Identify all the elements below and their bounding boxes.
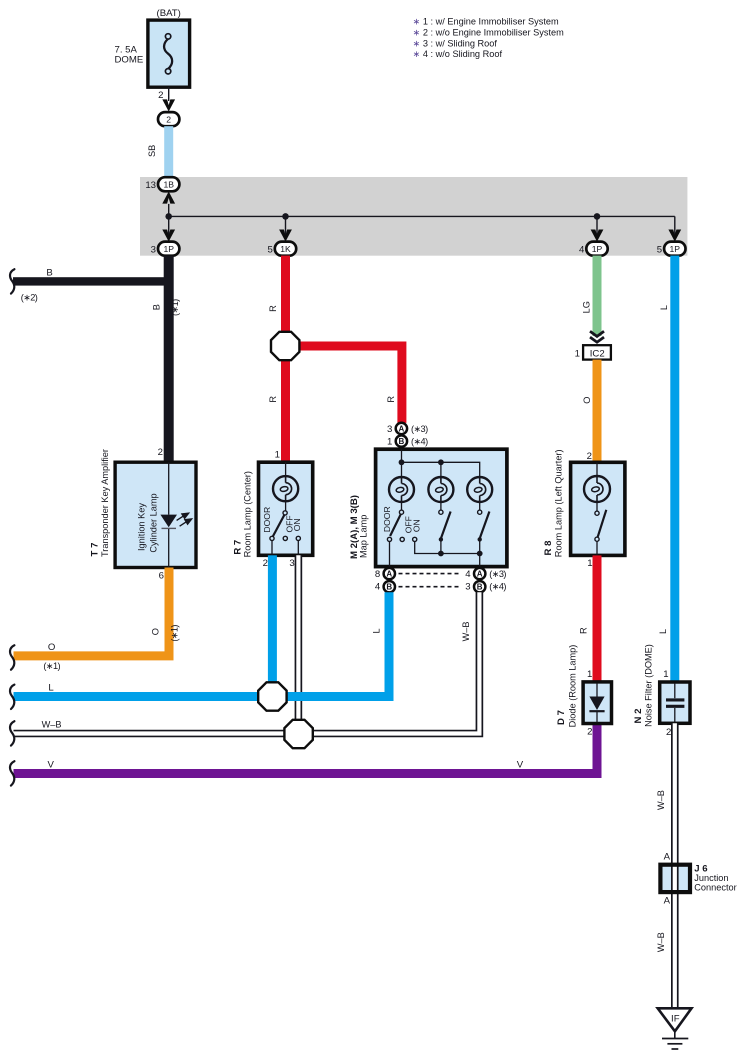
svg-text:4: 4	[579, 244, 585, 255]
map lamp switch 3	[478, 510, 482, 514]
svg-text:13: 13	[145, 180, 156, 191]
svg-text:LG: LG	[582, 301, 592, 313]
svg-text:W–B: W–B	[42, 720, 62, 730]
svg-text:A: A	[664, 896, 671, 907]
wire R red from 1K down	[281, 256, 290, 346]
wire W-B from N2 to ground	[671, 723, 679, 1008]
connector oval 1B pin 13	[158, 177, 179, 191]
map lamp DOOR switch	[399, 510, 403, 514]
wire R red octagon branch to map lamp	[286, 346, 402, 423]
map lamp bottom connectors right A/B	[474, 568, 485, 579]
svg-text:B: B	[399, 437, 405, 446]
ground IF	[658, 1008, 692, 1031]
svg-text:1P: 1P	[670, 244, 681, 254]
svg-text:(∗1): (∗1)	[169, 625, 179, 642]
T7 internal lead	[168, 462, 170, 515]
svg-text:DOOR: DOOR	[382, 506, 392, 532]
svg-text:5: 5	[657, 244, 662, 255]
svg-text:DOME: DOME	[115, 54, 144, 65]
svg-text:Noise Filter (DOME): Noise Filter (DOME)	[644, 644, 654, 727]
svg-text:ON: ON	[412, 519, 422, 532]
svg-text:A: A	[477, 570, 483, 579]
svg-text:2: 2	[587, 727, 592, 738]
room lamp left quarter R8 box	[571, 462, 625, 555]
wire B black vertical to T7	[164, 256, 174, 463]
svg-text:(∗2): (∗2)	[21, 293, 38, 303]
svg-text:L: L	[658, 629, 668, 634]
R8 switch	[595, 511, 599, 515]
svg-text:1: 1	[663, 669, 668, 680]
svg-text:T 7: T 7	[89, 543, 100, 557]
svg-text:(∗3): (∗3)	[489, 569, 506, 579]
svg-text:2: 2	[587, 451, 592, 462]
svg-text:L: L	[48, 683, 54, 694]
svg-text:O: O	[150, 628, 160, 635]
arrow into connector 2	[162, 99, 175, 111]
splice octagon (white)	[284, 720, 312, 748]
svg-text:Transponder Key Amplifier: Transponder Key Amplifier	[100, 449, 110, 557]
svg-text:8: 8	[375, 569, 380, 580]
svg-text:4: 4	[375, 582, 381, 593]
continuation brace (V row)	[10, 761, 14, 785]
svg-text:6: 6	[159, 571, 164, 582]
svg-text:3: 3	[465, 582, 470, 593]
svg-text:2: 2	[158, 447, 163, 458]
wire W-B from map lamp B2 down and left row	[14, 592, 480, 733]
junction dots on bus	[165, 213, 172, 220]
continuation brace (B branch)	[10, 269, 14, 293]
svg-text:L: L	[659, 305, 669, 310]
D7 diode symbol	[596, 683, 598, 697]
svg-text:IC2: IC2	[590, 348, 605, 359]
wire L blue from R7 pin 2	[268, 555, 277, 696]
junction block (gray band)	[140, 177, 687, 256]
svg-text:∗ 2 : w/o Engine Immobiliser S: ∗ 2 : w/o Engine Immobiliser System	[413, 28, 565, 38]
svg-text:1P: 1P	[592, 244, 603, 254]
map lamp bulb 3	[467, 477, 492, 502]
svg-text:2: 2	[666, 727, 671, 738]
svg-text:2: 2	[166, 115, 171, 125]
svg-text:1: 1	[575, 348, 580, 359]
map lamp box	[376, 449, 507, 566]
map lamp bottom connectors left A/B	[388, 567, 390, 592]
svg-text:A: A	[664, 851, 671, 862]
svg-text:B: B	[386, 583, 392, 592]
R7 lamp symbol	[285, 462, 287, 476]
svg-text:1P: 1P	[163, 244, 174, 254]
arrows into band-bottom connectors	[162, 230, 175, 242]
wire LG green from 1P pin 4	[593, 256, 602, 336]
svg-text:O: O	[582, 397, 592, 404]
svg-text:Connector: Connector	[694, 883, 736, 893]
svg-text:(∗1): (∗1)	[43, 661, 60, 671]
wire SB (light blue)	[164, 126, 173, 177]
svg-text:(∗4): (∗4)	[411, 437, 428, 447]
R8 lamp symbol	[596, 462, 598, 476]
room lamp center R7 box	[259, 462, 313, 555]
svg-text:W–B: W–B	[656, 790, 666, 810]
svg-text:2: 2	[158, 90, 163, 101]
svg-text:Diode (Room Lamp): Diode (Room Lamp)	[567, 645, 577, 728]
continuation brace (L row)	[10, 685, 14, 709]
fuse element symbol	[164, 39, 172, 69]
svg-text:SB: SB	[147, 145, 157, 157]
svg-text:Junction: Junction	[694, 873, 728, 883]
svg-text:1: 1	[387, 437, 392, 448]
svg-text:R 8: R 8	[543, 540, 554, 556]
svg-text:W–B: W–B	[461, 621, 471, 641]
noise filter N2 box	[660, 682, 690, 723]
svg-text:W–B: W–B	[656, 932, 666, 952]
svg-text:V: V	[517, 760, 524, 771]
svg-text:R: R	[386, 396, 396, 403]
map lamp bulb 2	[440, 462, 442, 477]
svg-text:5: 5	[267, 244, 272, 255]
wire fuse pin 2 lead	[168, 87, 170, 101]
svg-text:R: R	[268, 305, 278, 312]
map lamp internal top bus	[401, 449, 403, 462]
junction connector J6	[662, 867, 688, 890]
arrow up into 1B	[162, 192, 175, 204]
svg-text:L: L	[372, 628, 382, 633]
wire O orange from IC2 to R8	[593, 360, 602, 463]
N2 capacitor symbol	[674, 683, 676, 698]
continuation brace (O row)	[10, 645, 14, 669]
svg-text:R: R	[579, 627, 589, 634]
svg-text:4: 4	[465, 569, 471, 580]
svg-text:A: A	[386, 570, 392, 579]
svg-text:1: 1	[587, 669, 592, 680]
svg-text:1: 1	[587, 558, 592, 569]
svg-text:B: B	[152, 304, 162, 310]
svg-text:R: R	[268, 396, 278, 403]
connector oval 1P pin 3	[158, 242, 179, 256]
diode D7 box	[583, 682, 611, 724]
connector IC2	[583, 345, 611, 359]
shield splice chevrons	[590, 331, 604, 336]
svg-text:∗ 1 : w/ Engine Immobiliser Sy: ∗ 1 : w/ Engine Immobiliser System	[413, 17, 559, 27]
svg-text:3: 3	[387, 424, 392, 435]
connector oval 1K pin 5	[275, 242, 296, 256]
svg-text:V: V	[47, 760, 54, 771]
transponder key amplifier T7 box	[115, 462, 196, 567]
wire O from T7 to left connector	[14, 568, 170, 656]
svg-text:2: 2	[263, 558, 268, 569]
fuse 7.5A DOME box	[148, 20, 190, 87]
svg-text:N 2: N 2	[633, 709, 644, 724]
wire L blue from map lamp B to junction row	[14, 592, 390, 696]
wire L blue from 1P pin 5 to N2	[670, 256, 679, 682]
continuation brace (W-B row)	[10, 721, 14, 745]
internal bus wiring in junction block	[168, 204, 170, 237]
map lamp M2(A) M3(B) top connectors A/B	[401, 428, 403, 462]
svg-text:A: A	[399, 425, 405, 434]
svg-text:B: B	[477, 583, 483, 592]
svg-text:Room Lamp (Center): Room Lamp (Center)	[243, 471, 253, 557]
map lamp bottom bus	[415, 542, 480, 554]
svg-text:Room Lamp (Left Quarter): Room Lamp (Left Quarter)	[554, 449, 564, 557]
svg-text:IF: IF	[671, 1014, 680, 1025]
legend note (*1..*4)	[413, 17, 565, 60]
svg-text:1: 1	[275, 449, 280, 460]
svg-text:1K: 1K	[280, 244, 291, 254]
svg-text:(∗3): (∗3)	[411, 424, 428, 434]
wire W-B from R7 pin 3	[295, 555, 303, 734]
svg-text:D 7: D 7	[556, 710, 567, 725]
svg-text:DOOR: DOOR	[262, 507, 272, 533]
svg-text:(BAT): (BAT)	[157, 8, 181, 19]
wire V purple from D7 to left connector	[14, 723, 598, 773]
svg-text:∗ 4 : w/o Sliding Roof: ∗ 4 : w/o Sliding Roof	[413, 49, 503, 59]
LED emission arrows	[177, 513, 192, 526]
svg-text:Map Lamp: Map Lamp	[359, 515, 369, 558]
svg-text:(∗1): (∗1)	[170, 299, 180, 316]
splice octagon (red)	[271, 332, 299, 360]
svg-text:Cylinder Lamp: Cylinder Lamp	[148, 493, 158, 552]
svg-text:1B: 1B	[163, 180, 174, 190]
wire B branch to left connector	[13, 277, 169, 285]
svg-text:ON: ON	[292, 518, 302, 531]
svg-text:3: 3	[151, 244, 156, 255]
svg-text:∗ 3 : w/ Sliding Roof: ∗ 3 : w/ Sliding Roof	[413, 38, 498, 48]
map lamp bulb 1	[401, 462, 403, 477]
connector oval 1P pin 4	[586, 242, 607, 256]
map lamp switch 2	[439, 510, 443, 514]
wire R red to R7	[281, 346, 290, 462]
dashed links between connector pairs	[399, 573, 462, 575]
splice octagon (blue)	[258, 682, 286, 710]
connector oval 1P pin 5	[664, 242, 685, 256]
svg-text:(∗4): (∗4)	[489, 582, 506, 592]
LED diode symbol (Ignition Key Cylinder Lamp)	[160, 515, 177, 528]
R7 switch	[283, 511, 287, 515]
svg-text:Ignition Key: Ignition Key	[136, 503, 146, 551]
connector oval 2	[158, 112, 179, 126]
wire R red from R8 to D7	[593, 555, 602, 682]
svg-text:B: B	[46, 267, 52, 278]
svg-text:3: 3	[289, 558, 294, 569]
svg-text:O: O	[48, 642, 55, 653]
